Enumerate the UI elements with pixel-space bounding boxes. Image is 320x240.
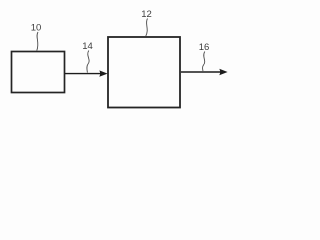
svg-text:12: 12	[141, 9, 152, 20]
svg-text:14: 14	[82, 41, 93, 52]
svg-text:16: 16	[199, 42, 210, 53]
svg-text:10: 10	[31, 23, 42, 34]
